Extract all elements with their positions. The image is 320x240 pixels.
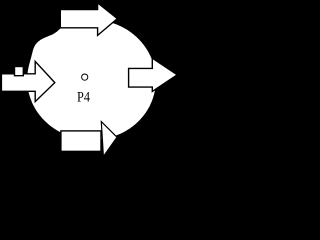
center ring node: [82, 74, 88, 80]
bottom arrow head: [101, 122, 117, 157]
svg-text:P4: P4: [77, 90, 91, 106]
process bubble P4 (white ellipse blob): [27, 20, 156, 140]
bottom arrow body (outflow): [61, 131, 101, 151]
top arrow (outflow): [60, 3, 117, 36]
right arrow (outflow): [129, 58, 178, 91]
left arrow (inflow): [1, 61, 54, 101]
small square on left arrow: [15, 67, 24, 76]
